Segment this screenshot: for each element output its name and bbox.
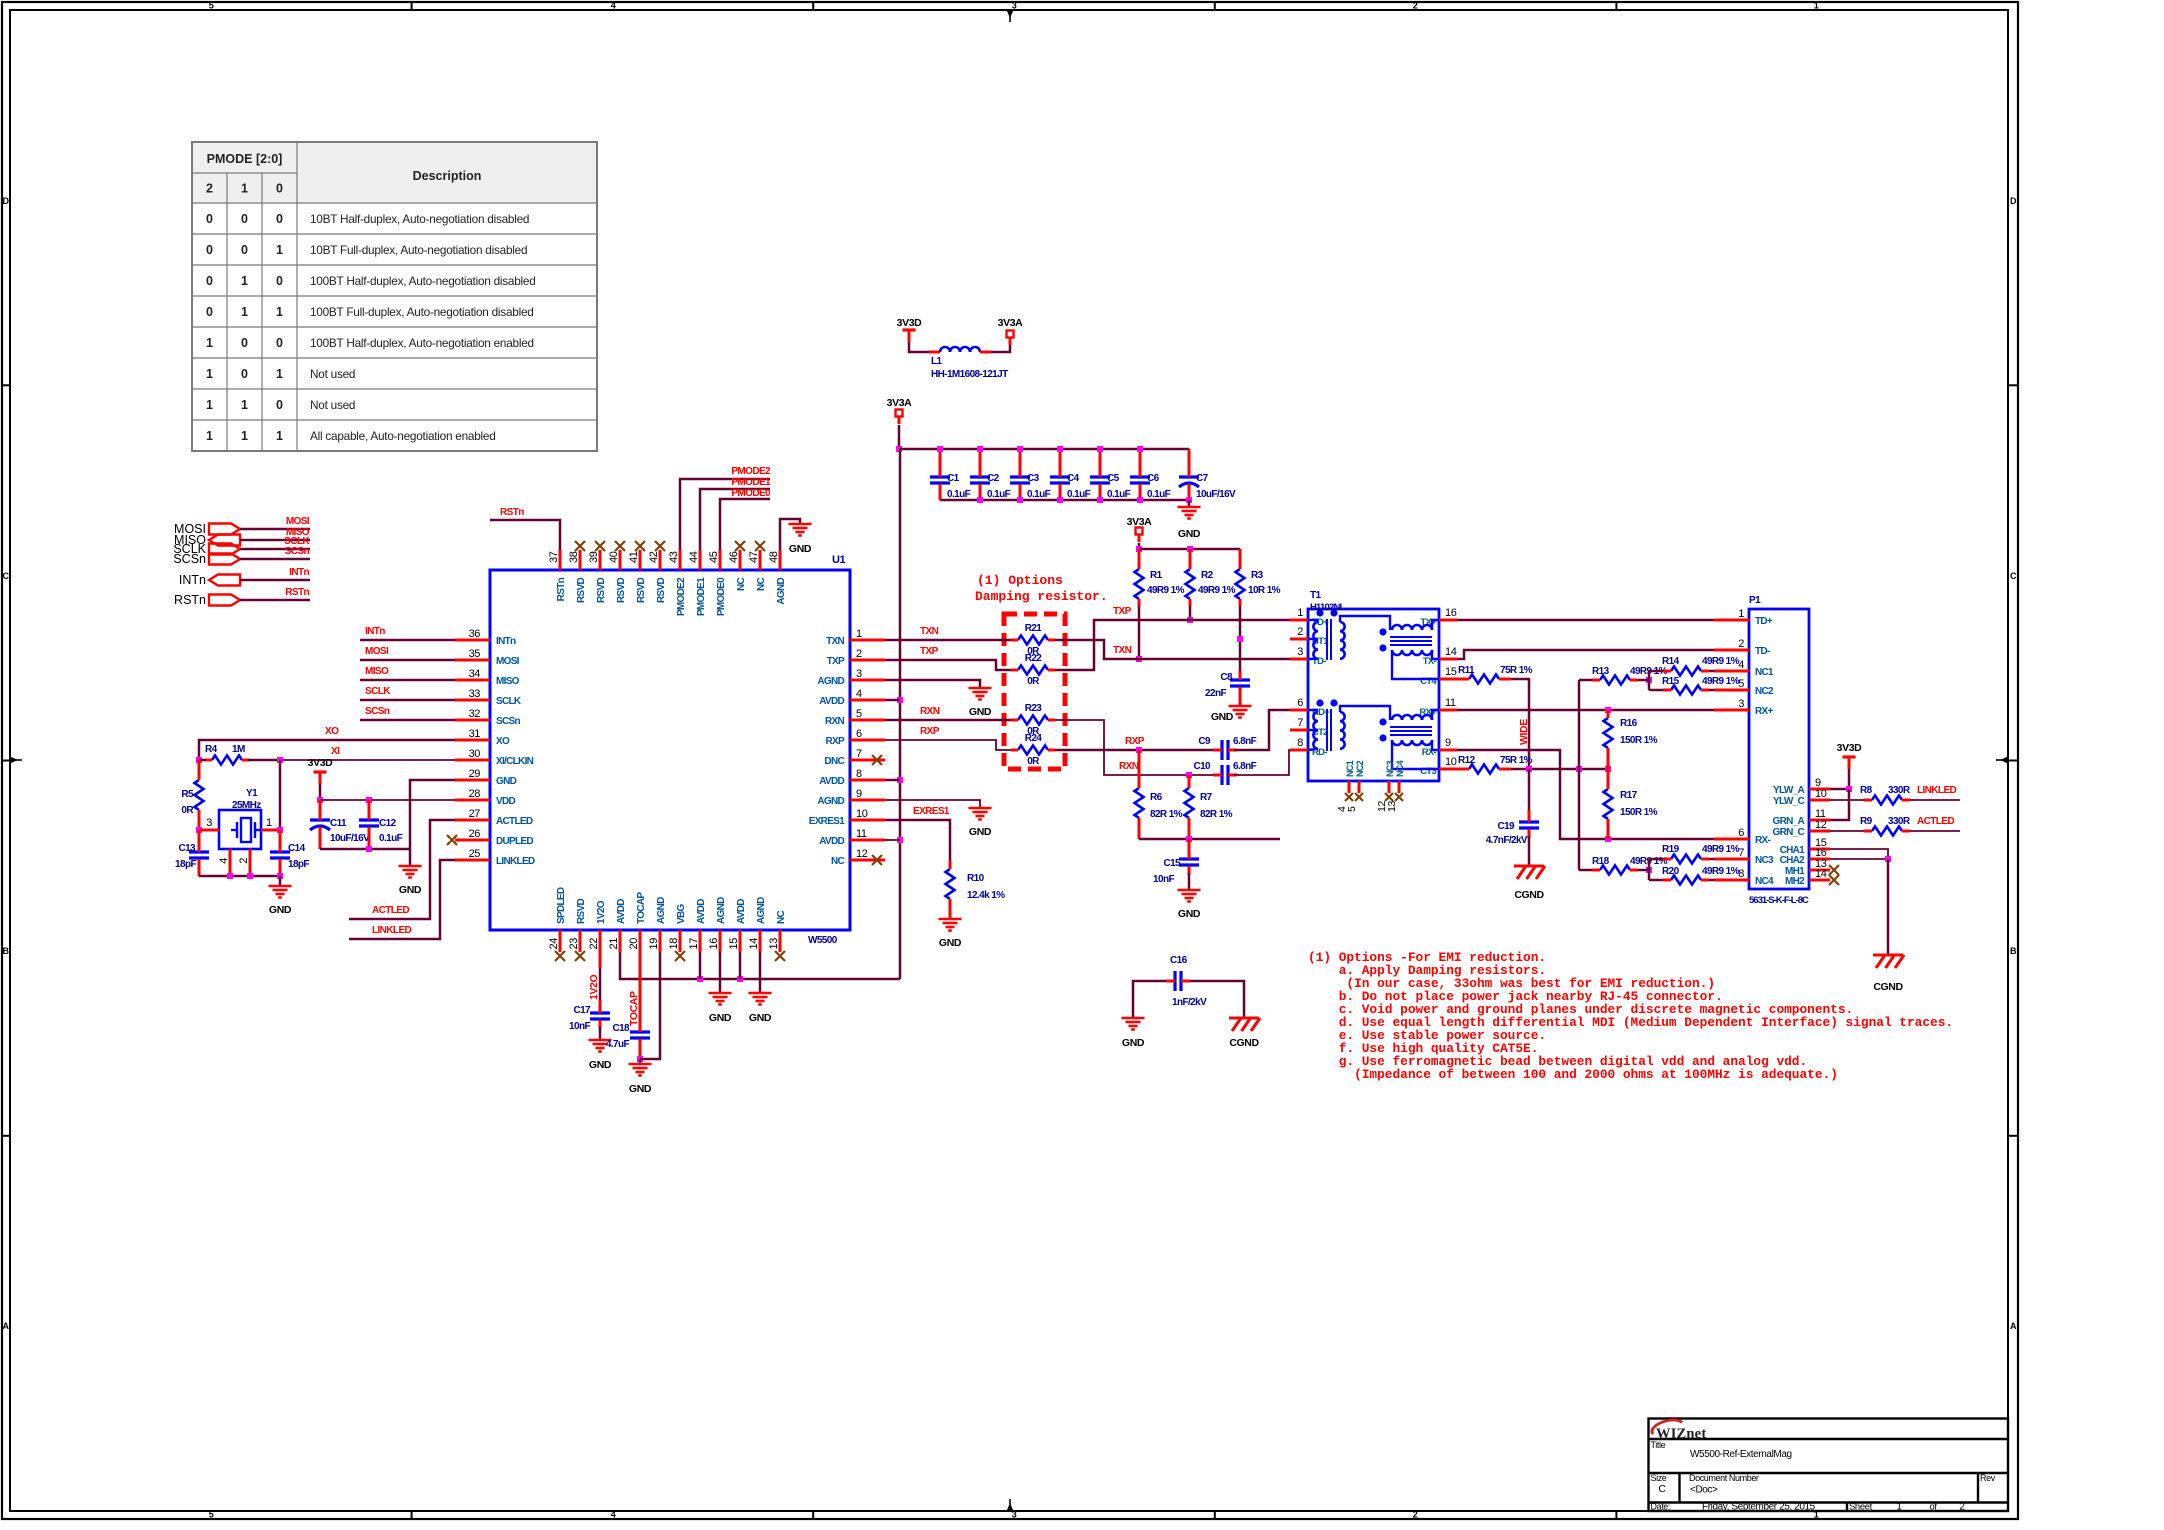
svg-text:INTn: INTn <box>496 636 516 647</box>
svg-text:9: 9 <box>1445 737 1451 749</box>
svg-text:H1102NL: H1102NL <box>1310 602 1346 613</box>
svg-text:1: 1 <box>206 429 213 443</box>
svg-text:B: B <box>2 946 9 956</box>
svg-text:18pF: 18pF <box>175 859 196 870</box>
svg-text:C6: C6 <box>1147 473 1160 484</box>
svg-text:RXN: RXN <box>825 716 844 727</box>
svg-text:R15: R15 <box>1662 676 1680 687</box>
svg-text:RSVD: RSVD <box>576 899 587 924</box>
svg-text:AGND: AGND <box>716 897 727 924</box>
svg-text:29: 29 <box>469 768 481 780</box>
svg-text:R2: R2 <box>1201 570 1214 581</box>
svg-text:RSVD: RSVD <box>656 578 667 603</box>
svg-text:C11: C11 <box>330 818 347 829</box>
svg-text:C1: C1 <box>947 473 960 484</box>
svg-text:1: 1 <box>241 182 248 196</box>
svg-text:49R9 1%: 49R9 1% <box>1198 585 1236 596</box>
svg-text:TXP: TXP <box>920 646 939 657</box>
svg-text:AVDD: AVDD <box>819 836 844 847</box>
svg-text:R4: R4 <box>205 744 218 755</box>
svg-text:C3: C3 <box>1027 473 1040 484</box>
svg-text:1: 1 <box>276 305 283 319</box>
svg-text:R21: R21 <box>1025 623 1043 634</box>
svg-text:1: 1 <box>241 398 248 412</box>
svg-text:SCLK: SCLK <box>496 696 522 707</box>
svg-text:150R 1%: 150R 1% <box>1620 807 1658 818</box>
svg-text:TD-: TD- <box>1755 646 1770 657</box>
svg-text:VDD: VDD <box>496 796 515 807</box>
svg-text:of: of <box>1929 1502 1937 1513</box>
svg-text:RSVD: RSVD <box>596 578 607 603</box>
svg-text:C9: C9 <box>1198 736 1211 747</box>
svg-text:CHA2: CHA2 <box>1780 855 1806 866</box>
svg-text:31: 31 <box>469 728 481 740</box>
svg-text:GND: GND <box>1178 528 1201 540</box>
svg-text:14: 14 <box>1445 646 1457 658</box>
svg-text:5: 5 <box>209 1 214 11</box>
svg-text:0: 0 <box>276 274 283 288</box>
svg-text:PMODE1: PMODE1 <box>731 477 771 488</box>
svg-text:R1: R1 <box>1150 570 1163 581</box>
svg-text:C12: C12 <box>379 818 397 829</box>
svg-text:7: 7 <box>1297 717 1303 729</box>
svg-text:Y1: Y1 <box>246 788 258 799</box>
svg-text:13: 13 <box>768 938 780 950</box>
svg-text:0: 0 <box>241 243 248 257</box>
svg-text:MISO: MISO <box>365 666 389 677</box>
svg-text:1: 1 <box>206 398 213 412</box>
svg-text:D: D <box>2 196 9 206</box>
svg-text:75R 1%: 75R 1% <box>1500 665 1533 676</box>
svg-text:15: 15 <box>1445 666 1457 678</box>
svg-text:DNC: DNC <box>824 756 844 767</box>
svg-text:INTn: INTn <box>179 573 206 587</box>
svg-text:0R: 0R <box>1027 676 1040 687</box>
svg-text:0: 0 <box>276 398 283 412</box>
svg-text:SCSn: SCSn <box>285 546 310 557</box>
svg-text:NC2: NC2 <box>1355 760 1365 777</box>
svg-text:2: 2 <box>856 648 862 660</box>
svg-text:RXP: RXP <box>1125 736 1145 747</box>
svg-text:AVDD: AVDD <box>819 696 844 707</box>
svg-text:33: 33 <box>469 688 481 700</box>
svg-text:Damping resistor.: Damping resistor. <box>975 589 1108 604</box>
svg-text:1: 1 <box>241 305 248 319</box>
svg-text:12: 12 <box>856 848 868 860</box>
svg-text:TD+: TD+ <box>1755 616 1773 627</box>
svg-text:D: D <box>2010 196 2017 206</box>
svg-text:4: 4 <box>1738 659 1744 671</box>
svg-text:INTn: INTn <box>289 567 309 578</box>
svg-text:T1: T1 <box>1310 590 1322 601</box>
svg-text:GRN_C: GRN_C <box>1772 827 1804 838</box>
svg-text:48: 48 <box>768 551 780 563</box>
svg-text:GND: GND <box>939 937 962 949</box>
svg-text:TX-: TX- <box>1423 656 1437 667</box>
svg-text:82R 1%: 82R 1% <box>1150 809 1183 820</box>
svg-text:10nF: 10nF <box>1153 874 1174 885</box>
svg-text:0: 0 <box>206 305 213 319</box>
svg-text:R9: R9 <box>1860 816 1873 827</box>
svg-text:GND: GND <box>629 1083 652 1095</box>
svg-text:0.1uF: 0.1uF <box>987 489 1011 500</box>
svg-text:A: A <box>2010 1321 2017 1331</box>
svg-text:GND: GND <box>789 543 812 555</box>
svg-text:C13: C13 <box>178 843 196 854</box>
svg-text:100BT Half-duplex, Auto-negoti: 100BT Half-duplex, Auto-negotiation enab… <box>310 336 534 350</box>
svg-text:C18: C18 <box>612 1023 630 1034</box>
svg-text:RSTn: RSTn <box>174 593 206 607</box>
svg-text:R6: R6 <box>1150 792 1163 803</box>
svg-text:10: 10 <box>856 808 868 820</box>
svg-text:0: 0 <box>241 336 248 350</box>
svg-text:ACTLED: ACTLED <box>496 816 533 827</box>
svg-text:16: 16 <box>708 938 720 950</box>
svg-text:R20: R20 <box>1662 866 1680 877</box>
svg-text:4: 4 <box>218 858 230 864</box>
svg-text:MOSI: MOSI <box>286 516 310 527</box>
svg-text:GND: GND <box>399 884 422 896</box>
svg-text:RSVD: RSVD <box>616 578 627 603</box>
svg-text:GND: GND <box>1211 711 1234 723</box>
svg-text:SCSn: SCSn <box>365 706 390 717</box>
svg-text:0R: 0R <box>181 805 194 816</box>
svg-text:0: 0 <box>206 243 213 257</box>
svg-text:PMODE0: PMODE0 <box>716 577 727 616</box>
svg-text:0.1uF: 0.1uF <box>1067 489 1091 500</box>
svg-text:NC4: NC4 <box>1395 760 1405 777</box>
svg-text:25: 25 <box>469 848 481 860</box>
svg-text:1: 1 <box>266 817 272 829</box>
svg-text:5: 5 <box>209 1510 214 1520</box>
svg-text:15: 15 <box>728 938 740 950</box>
svg-text:CT3: CT3 <box>1420 766 1436 777</box>
svg-text:2: 2 <box>1297 626 1303 638</box>
svg-text:CT4: CT4 <box>1420 676 1437 687</box>
svg-text:3V3A: 3V3A <box>1127 516 1152 528</box>
svg-text:Sheet: Sheet <box>1849 1502 1873 1513</box>
svg-text:10R 1%: 10R 1% <box>1248 585 1281 596</box>
svg-text:330R: 330R <box>1888 816 1911 827</box>
svg-text:R17: R17 <box>1620 790 1638 801</box>
svg-text:W5500-Ref-ExternalMag: W5500-Ref-ExternalMag <box>1690 1449 1792 1460</box>
svg-text:0: 0 <box>276 182 283 196</box>
svg-text:21: 21 <box>608 938 620 950</box>
svg-text:SCSn: SCSn <box>496 716 520 727</box>
svg-text:4.7uF: 4.7uF <box>606 1039 630 1050</box>
svg-text:SPDLED: SPDLED <box>556 887 567 924</box>
svg-text:LINKLED: LINKLED <box>372 925 412 936</box>
svg-text:10BT Half-duplex, Auto-negotia: 10BT Half-duplex, Auto-negotiation disab… <box>310 212 529 226</box>
svg-text:0: 0 <box>276 212 283 226</box>
svg-text:A: A <box>2 1321 9 1331</box>
svg-text:3: 3 <box>206 817 212 829</box>
svg-text:5: 5 <box>856 708 862 720</box>
svg-text:U1: U1 <box>832 554 846 566</box>
svg-text:4: 4 <box>611 1 616 11</box>
svg-text:R19: R19 <box>1662 844 1680 855</box>
svg-text:HH-1M1608-121JT: HH-1M1608-121JT <box>931 369 1008 380</box>
svg-text:NC: NC <box>756 578 767 592</box>
svg-text:NC: NC <box>831 856 845 867</box>
svg-text:3: 3 <box>856 668 862 680</box>
svg-text:7: 7 <box>1738 847 1744 859</box>
svg-text:17: 17 <box>688 938 700 950</box>
svg-text:AGND: AGND <box>656 897 667 924</box>
svg-text:Size: Size <box>1651 1473 1667 1483</box>
svg-text:10BT Full-duplex, Auto-negotia: 10BT Full-duplex, Auto-negotiation disab… <box>310 243 527 257</box>
svg-text:MH2: MH2 <box>1785 876 1805 887</box>
svg-text:6.8nF: 6.8nF <box>1233 761 1257 772</box>
svg-text:Rev: Rev <box>1980 1473 1996 1483</box>
svg-text:7: 7 <box>856 748 862 760</box>
svg-text:NC1: NC1 <box>1345 760 1355 777</box>
svg-text:1: 1 <box>1738 608 1744 620</box>
svg-text:AGND: AGND <box>817 676 844 687</box>
svg-text:0.1uF: 0.1uF <box>1107 489 1131 500</box>
svg-text:0.1uF: 0.1uF <box>1147 489 1171 500</box>
svg-text:VBG: VBG <box>676 904 687 924</box>
svg-text:PMODE1: PMODE1 <box>696 577 707 616</box>
svg-text:C7: C7 <box>1196 473 1209 484</box>
svg-text:22nF: 22nF <box>1205 688 1226 699</box>
svg-text:XO: XO <box>325 726 339 737</box>
svg-text:5: 5 <box>1346 806 1358 812</box>
svg-text:TOCAP: TOCAP <box>636 892 647 924</box>
svg-text:GND: GND <box>969 826 992 838</box>
svg-text:Not used: Not used <box>310 367 355 381</box>
svg-text:Date:: Date: <box>1651 1502 1671 1512</box>
svg-text:32: 32 <box>469 708 481 720</box>
svg-text:38: 38 <box>568 551 580 563</box>
svg-text:9: 9 <box>856 788 862 800</box>
svg-text:EXRES1: EXRES1 <box>809 816 845 827</box>
svg-text:NC1: NC1 <box>1755 667 1774 678</box>
svg-text:C4: C4 <box>1067 473 1080 484</box>
svg-text:INTn: INTn <box>365 626 385 637</box>
svg-text:47: 47 <box>748 551 760 563</box>
svg-text:Title: Title <box>1651 1440 1666 1450</box>
svg-text:GND: GND <box>589 1059 612 1071</box>
svg-text:8: 8 <box>856 768 862 780</box>
svg-text:35: 35 <box>469 648 481 660</box>
svg-text:10nF: 10nF <box>569 1021 590 1032</box>
svg-text:46: 46 <box>728 551 740 563</box>
svg-text:All capable, Auto-negotiation: All capable, Auto-negotiation enabled <box>310 429 496 443</box>
svg-text:3V3D: 3V3D <box>897 317 922 329</box>
svg-text:1: 1 <box>276 367 283 381</box>
svg-text:1: 1 <box>276 243 283 257</box>
svg-text:RSVD: RSVD <box>636 578 647 603</box>
svg-text:Friday, September 25, 2015: Friday, September 25, 2015 <box>1702 1502 1816 1513</box>
svg-text:R13: R13 <box>1592 666 1610 677</box>
svg-text:6: 6 <box>856 728 862 740</box>
svg-text:3: 3 <box>1738 698 1744 710</box>
svg-text:RX+: RX+ <box>1755 706 1773 717</box>
svg-text:0.1uF: 0.1uF <box>1027 489 1051 500</box>
svg-text:0: 0 <box>276 336 283 350</box>
svg-text:NC3: NC3 <box>1755 855 1774 866</box>
svg-text:XO: XO <box>496 736 510 747</box>
svg-text:R12: R12 <box>1458 755 1476 766</box>
svg-text:YLW_C: YLW_C <box>1773 796 1804 807</box>
svg-text:42: 42 <box>648 551 660 563</box>
svg-text:49R9 1%: 49R9 1% <box>1147 585 1185 596</box>
svg-text:C19: C19 <box>1497 821 1515 832</box>
svg-text:0: 0 <box>206 212 213 226</box>
svg-text:10: 10 <box>1445 756 1457 768</box>
svg-text:GRN_A: GRN_A <box>1772 816 1804 827</box>
svg-text:19: 19 <box>648 938 660 950</box>
svg-text:AVDD: AVDD <box>616 899 627 924</box>
svg-text:3V3D: 3V3D <box>1837 742 1862 754</box>
svg-text:10uF/16V: 10uF/16V <box>330 833 370 844</box>
svg-text:GND: GND <box>969 706 992 718</box>
svg-text:SCSn: SCSn <box>173 552 206 566</box>
svg-text:2: 2 <box>1413 1510 1418 1520</box>
svg-text:49R9 1%: 49R9 1% <box>1702 656 1740 667</box>
svg-text:PMODE2: PMODE2 <box>731 466 771 477</box>
svg-text:6.8nF: 6.8nF <box>1233 736 1257 747</box>
svg-text:NC: NC <box>736 578 747 592</box>
svg-text:YLW_A: YLW_A <box>1773 785 1804 796</box>
svg-text:10: 10 <box>1815 788 1827 800</box>
svg-text:RXP: RXP <box>826 736 845 747</box>
svg-text:40: 40 <box>608 551 620 563</box>
svg-text:AGND: AGND <box>776 578 787 605</box>
svg-text:24: 24 <box>548 938 560 950</box>
svg-text:1: 1 <box>206 336 213 350</box>
svg-text:4: 4 <box>856 688 862 700</box>
svg-text:1V2O: 1V2O <box>588 975 600 1000</box>
svg-text:R23: R23 <box>1025 703 1043 714</box>
svg-text:0: 0 <box>241 367 248 381</box>
svg-text:XI/CLKIN: XI/CLKIN <box>496 756 534 767</box>
svg-text:LINKLED: LINKLED <box>496 856 535 867</box>
svg-text:0: 0 <box>241 212 248 226</box>
svg-text:3: 3 <box>1012 1 1017 11</box>
svg-text:3: 3 <box>1297 646 1303 658</box>
svg-text:RXN: RXN <box>1119 761 1139 772</box>
svg-text:(Impedance of between 100 and: (Impedance of between 100 and 2000 ohms … <box>1308 1067 1838 1082</box>
svg-text:Not used: Not used <box>310 398 355 412</box>
svg-text:36: 36 <box>469 628 481 640</box>
svg-text:30: 30 <box>469 748 481 760</box>
svg-text:37: 37 <box>548 551 560 563</box>
svg-text:SCLK: SCLK <box>365 686 391 697</box>
svg-text:C2: C2 <box>987 473 1000 484</box>
svg-text:1: 1 <box>1297 607 1303 619</box>
svg-text:1: 1 <box>206 367 213 381</box>
svg-text:GND: GND <box>749 1012 772 1024</box>
svg-text:5631-S-K-F-L-8C: 5631-S-K-F-L-8C <box>1749 895 1809 906</box>
svg-text:RSTn: RSTn <box>500 507 524 518</box>
svg-text:ACTLED: ACTLED <box>372 905 409 916</box>
svg-text:R3: R3 <box>1251 570 1264 581</box>
svg-text:AVDD: AVDD <box>819 776 844 787</box>
svg-text:WIDE: WIDE <box>1518 719 1530 745</box>
svg-text:C15: C15 <box>1163 858 1181 869</box>
svg-text:TXN: TXN <box>826 636 844 647</box>
svg-text:R11: R11 <box>1458 665 1475 676</box>
svg-text:AVDD: AVDD <box>696 899 707 924</box>
svg-text:4.7nF/2kV: 4.7nF/2kV <box>1486 835 1528 846</box>
svg-text:DUPLED: DUPLED <box>496 836 533 847</box>
svg-text:13: 13 <box>1386 801 1398 812</box>
svg-text:CGND: CGND <box>1514 889 1544 901</box>
svg-text:C10: C10 <box>1193 761 1211 772</box>
svg-text:6: 6 <box>1738 827 1744 839</box>
svg-text:1: 1 <box>1896 1502 1902 1513</box>
svg-text:100BT Half-duplex, Auto-negoti: 100BT Half-duplex, Auto-negotiation disa… <box>310 274 536 288</box>
svg-text:MISO: MISO <box>496 676 520 687</box>
svg-text:14: 14 <box>748 938 760 950</box>
svg-text:41: 41 <box>628 551 640 563</box>
svg-text:2: 2 <box>1738 638 1744 650</box>
svg-text:0R: 0R <box>1027 756 1040 767</box>
svg-text:14: 14 <box>1815 868 1827 880</box>
svg-text:1V2O: 1V2O <box>596 900 607 924</box>
svg-text:5: 5 <box>1738 678 1744 690</box>
svg-text:LINKLED: LINKLED <box>1917 785 1957 796</box>
svg-text:100BT Full-duplex, Auto-negoti: 100BT Full-duplex, Auto-negotiation disa… <box>310 305 534 319</box>
svg-text:NC4: NC4 <box>1755 876 1774 887</box>
svg-text:1: 1 <box>241 274 248 288</box>
svg-text:R24: R24 <box>1025 733 1043 744</box>
svg-text:1nF/2kV: 1nF/2kV <box>1172 997 1207 1008</box>
svg-text:2: 2 <box>206 182 213 196</box>
svg-text:GND: GND <box>496 776 517 787</box>
svg-text:RXN: RXN <box>920 706 940 717</box>
svg-text:22: 22 <box>588 938 600 950</box>
svg-text:C: C <box>2 571 9 581</box>
svg-text:49R9 1%: 49R9 1% <box>1702 676 1740 687</box>
svg-text:PMODE2: PMODE2 <box>676 577 687 616</box>
svg-text:R8: R8 <box>1860 785 1873 796</box>
svg-text:R22: R22 <box>1025 653 1043 664</box>
svg-text:R10: R10 <box>967 873 985 884</box>
svg-text:R5: R5 <box>181 789 194 800</box>
svg-text:C16: C16 <box>1170 955 1188 966</box>
svg-text:C8: C8 <box>1220 672 1233 683</box>
svg-text:Document Number: Document Number <box>1689 1473 1759 1483</box>
svg-text:C: C <box>1658 1483 1666 1495</box>
svg-text:L1: L1 <box>931 356 943 367</box>
svg-text:49R9 1%: 49R9 1% <box>1702 844 1740 855</box>
svg-text:RX-: RX- <box>1755 835 1770 846</box>
svg-text:11: 11 <box>856 828 867 840</box>
svg-text:TXP: TXP <box>1113 606 1132 617</box>
svg-text:C14: C14 <box>288 843 306 854</box>
svg-text:26: 26 <box>469 828 481 840</box>
svg-text:330R: 330R <box>1888 785 1911 796</box>
svg-text:R14: R14 <box>1662 656 1680 667</box>
svg-text:2: 2 <box>238 858 250 864</box>
svg-text:TOCAP: TOCAP <box>628 991 640 1026</box>
svg-text:PMODE0: PMODE0 <box>731 488 771 499</box>
svg-text:AVDD: AVDD <box>736 899 747 924</box>
svg-text:0: 0 <box>206 274 213 288</box>
svg-text:(1) Options: (1) Options <box>977 573 1063 588</box>
svg-text:RX-: RX- <box>1422 747 1437 758</box>
svg-text:23: 23 <box>568 938 580 950</box>
svg-text:RSVD: RSVD <box>576 578 587 603</box>
svg-text:0.1uF: 0.1uF <box>379 833 403 844</box>
svg-text:B: B <box>2010 946 2017 956</box>
svg-text:12.4k 1%: 12.4k 1% <box>967 890 1005 901</box>
svg-text:75R 1%: 75R 1% <box>1500 755 1533 766</box>
svg-text:C5: C5 <box>1107 473 1120 484</box>
